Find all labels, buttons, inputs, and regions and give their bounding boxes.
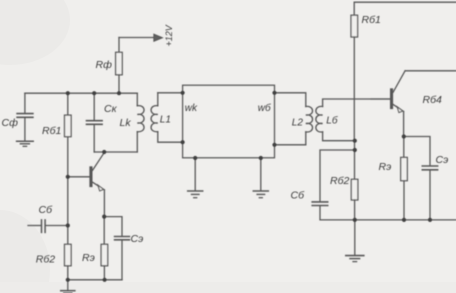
inductor L1 — [151, 93, 183, 142]
svg-text:Rб1: Rб1 — [362, 14, 381, 26]
svg-text:Сб: Сб — [291, 190, 306, 202]
svg-text:Ск: Ск — [104, 103, 118, 115]
svg-text:Сф: Сф — [2, 117, 19, 129]
capacitor Cf — [17, 114, 33, 118]
svg-text:Rэ: Rэ — [379, 161, 392, 173]
svg-text:Rб2: Rб2 — [330, 175, 349, 187]
inductor Lk — [137, 93, 144, 152]
resistor Re right — [401, 137, 408, 220]
capacitor Cf lead — [24, 93, 26, 113]
wire: Cf to ground — [24, 118, 26, 141]
resistor Rb2 right — [351, 179, 358, 220]
svg-text:wk: wk — [185, 103, 198, 114]
wire: tank bottom — [94, 151, 137, 153]
svg-text:wб: wб — [258, 102, 271, 114]
wire: Rb1 column down — [67, 177, 69, 245]
wire: emitter node to Ce left — [104, 217, 122, 236]
wire: Cb right top feed — [320, 150, 355, 201]
svg-text:Rэ: Rэ — [82, 252, 95, 264]
inductor L2 — [275, 93, 313, 145]
inductor Lb — [316, 99, 390, 141]
resistor Rb1 right — [351, 15, 358, 141]
svg-text:Сэ: Сэ — [131, 233, 144, 245]
svg-text:+12V: +12V — [164, 24, 174, 46]
capacitor Ck — [87, 93, 103, 152]
wire: left top rail — [25, 92, 137, 94]
svg-text:Rф: Rф — [96, 59, 113, 71]
ground under box 2 — [253, 158, 268, 198]
resistor Rf — [116, 38, 123, 94]
wire: Rb1 col to Rb2 — [354, 141, 356, 180]
ground bottom left — [61, 280, 75, 293]
transistor VT1 — [68, 153, 105, 217]
svg-text:L2: L2 — [292, 118, 304, 129]
capacitor Ce right — [422, 166, 437, 220]
svg-text:Rб1: Rб1 — [42, 125, 61, 137]
svg-text:Rб4: Rб4 — [423, 94, 442, 106]
svg-text:Lk: Lk — [120, 117, 132, 129]
svg-text:L1: L1 — [160, 115, 171, 126]
wire: +12V feed — [119, 37, 154, 39]
power arrow +12V — [154, 34, 162, 41]
resistor Rb1 left — [65, 93, 72, 177]
wire: bottom right rail — [355, 219, 456, 221]
ground under Cf — [17, 141, 34, 146]
capacitor Cb left (input) — [28, 220, 68, 233]
wire: emitter node to Ce right — [404, 137, 430, 166]
wire: VT2 collector out — [405, 70, 456, 72]
ground right — [346, 220, 364, 262]
svg-text:Сэ: Сэ — [436, 154, 449, 166]
filter box Z1 — [183, 85, 275, 158]
capacitor Ce left — [115, 237, 130, 280]
capacitor Cb right — [312, 202, 355, 220]
wire: bottom left rail — [68, 279, 122, 281]
svg-text:Сб: Сб — [39, 204, 54, 216]
transistor VT2 — [371, 71, 405, 137]
resistor Rb2 left — [65, 244, 72, 279]
wire: top right rail — [354, 2, 456, 15]
svg-text:Lб: Lб — [326, 115, 338, 127]
ground under box 1 — [188, 158, 203, 198]
resistor Re left — [101, 217, 108, 280]
